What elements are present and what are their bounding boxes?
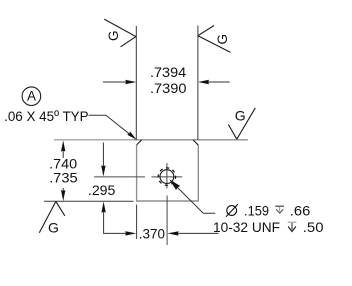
dimension .295 lower arrow + .370 dim line left xyxy=(104,210,128,233)
svg-text:G: G xyxy=(215,34,230,45)
svg-text:G: G xyxy=(48,220,59,236)
hole centerline horizontal xyxy=(94,176,145,178)
svg-text:A: A xyxy=(27,89,36,104)
surface finish symbol bottom-left (inverted under line) xyxy=(39,201,65,232)
dimension .740/.735 bottom arrow xyxy=(62,188,64,193)
hole centerline vertical xyxy=(166,163,168,188)
hole leader xyxy=(176,186,216,214)
surface finish symbol top-left (points right at extension) xyxy=(104,19,136,47)
svg-text:.295: .295 xyxy=(88,183,116,199)
wire top horizontal line (extension left + block top + extension right) xyxy=(54,139,134,141)
chamfer top-left xyxy=(137,140,142,145)
bottom extension of hole centerline xyxy=(166,196,168,246)
top-right extension line vertical xyxy=(197,26,199,140)
dimension .740/.735 top arrow xyxy=(62,148,64,158)
datum circle A xyxy=(22,87,41,106)
bottom extension line at block left edge xyxy=(136,205,138,240)
svg-text:10-32 UNF: 10-32 UNF xyxy=(213,220,280,236)
dimension .7394/.7390 left arrow xyxy=(103,81,128,83)
svg-text:.50: .50 xyxy=(303,220,324,236)
svg-text:.7390: .7390 xyxy=(150,81,187,97)
svg-text:.370: .370 xyxy=(139,227,165,243)
surface finish symbol right (upright on top line) xyxy=(228,108,255,139)
top-left extension line vertical xyxy=(135,26,137,140)
chamfer top-right xyxy=(193,140,198,145)
svg-text:G: G xyxy=(235,107,246,123)
dimension .295 upper arrow xyxy=(102,143,104,170)
svg-text:.159: .159 xyxy=(244,204,269,220)
svg-text:G: G xyxy=(106,31,121,42)
chamfer leader xyxy=(89,115,134,137)
svg-text:.66: .66 xyxy=(290,204,311,220)
surface finish symbol top-right (points left at extension) xyxy=(198,26,230,53)
svg-text:.7394: .7394 xyxy=(150,65,186,81)
dimension .7394/.7390 right arrow xyxy=(207,81,230,83)
svg-text:.06 X 45º TYP: .06 X 45º TYP xyxy=(4,109,89,125)
dimension .370 right arrow xyxy=(177,232,219,234)
block outline (part) xyxy=(137,145,199,201)
depth symbol line2 xyxy=(288,222,297,231)
dimension .370 left arrow xyxy=(125,231,136,235)
depth symbol line1 xyxy=(275,206,284,213)
hole minor circle xyxy=(160,170,174,184)
svg-text:.735: .735 xyxy=(49,171,78,187)
hole thread dashed circle xyxy=(158,168,175,185)
bottom-left extension line horizontal xyxy=(44,200,134,202)
hole callout line1: diameter symbol xyxy=(227,206,237,216)
